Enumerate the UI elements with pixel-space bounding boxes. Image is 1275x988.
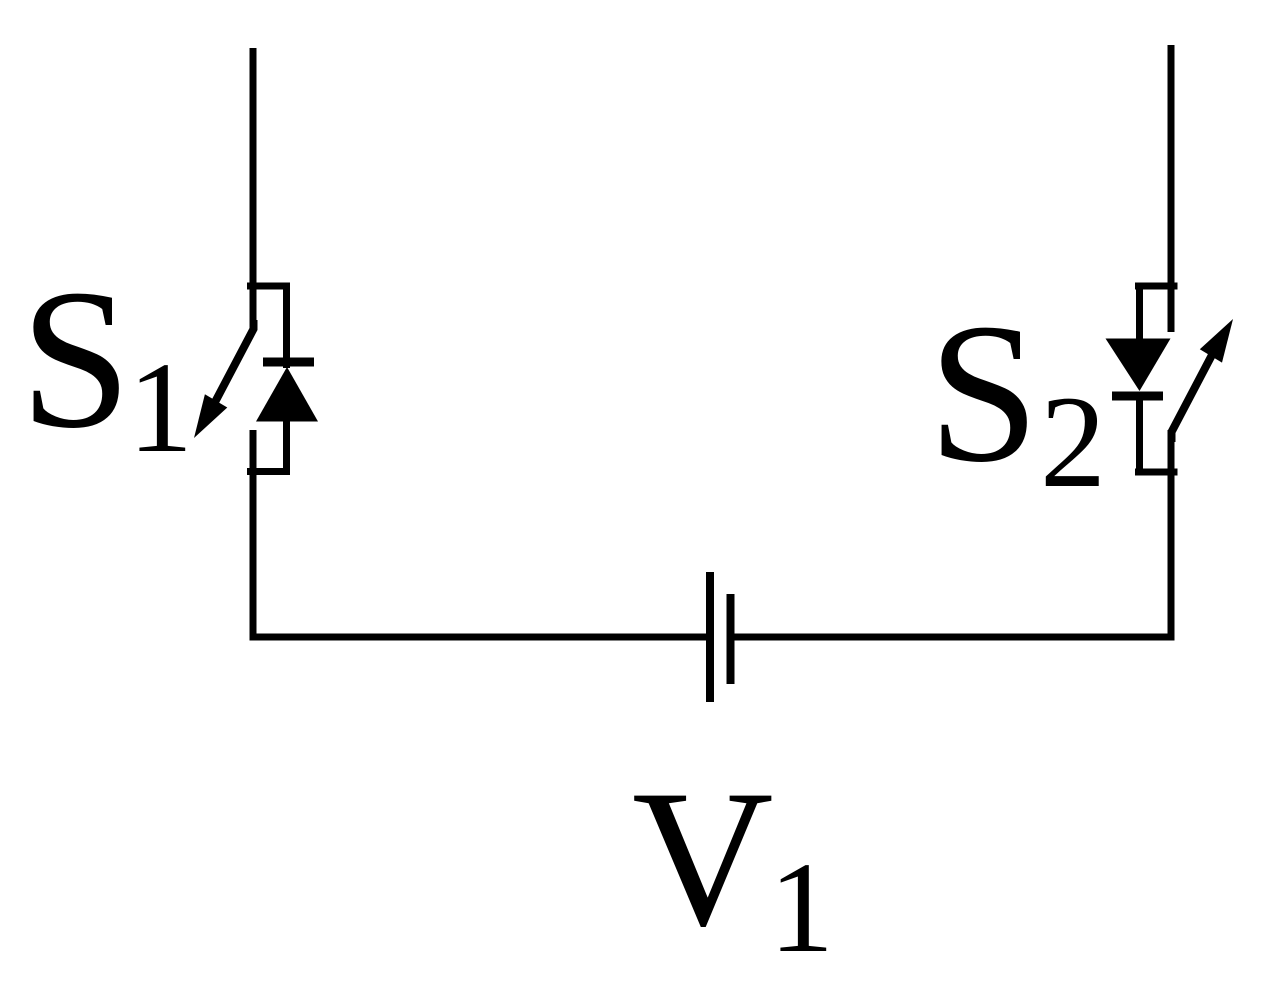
svg-text:S: S xyxy=(928,283,1039,504)
wire: S1 diode branch upper segment xyxy=(283,283,290,368)
wire: left top vertical from supply rail down to S1 top junction xyxy=(250,48,257,330)
anti-parallel diode of S1: cathode bar xyxy=(263,358,314,367)
battery V1: left (long) plate xyxy=(706,572,714,702)
wire: S2 diode branch lower segment xyxy=(1136,398,1143,475)
svg-text:1: 1 xyxy=(128,336,193,480)
wire: S1 bottom terminal extension xyxy=(250,430,257,475)
wire: S1 bottom stub from diode branch xyxy=(247,468,290,475)
anti-parallel diode of S2: triangle (pointing down) xyxy=(1106,339,1171,392)
wire: S2 diode branch upper segment xyxy=(1136,283,1143,340)
switch S2 blade (ideal switch arm with arrowhead) xyxy=(1172,319,1234,442)
svg-text:2: 2 xyxy=(1040,368,1106,515)
wire: left bottom vertical and bottom-left horizontal run to battery xyxy=(253,468,706,637)
wire: S2 bottom stub to diode branch xyxy=(1135,469,1178,476)
wire: bottom-right horizontal run and right vertical up to S2 bottom junction xyxy=(734,430,1171,637)
anti-parallel diode of S2: cathode bar xyxy=(1112,392,1163,401)
battery V1: right (short) plate xyxy=(727,594,735,684)
svg-text:V: V xyxy=(632,750,774,967)
wire: right top vertical from supply rail down through S2 top junction (fixed contact) xyxy=(1168,45,1175,332)
wire: S2 top stub from diode branch xyxy=(1135,283,1178,290)
svg-text:S: S xyxy=(20,249,131,470)
switch S1 blade (ideal switch arm with arrowhead) xyxy=(194,320,254,438)
wire: S1 top stub to diode branch xyxy=(247,283,290,290)
wire: S1 diode branch lower segment xyxy=(283,420,290,475)
anti-parallel diode of S1: triangle (pointing up) xyxy=(256,367,318,422)
svg-text:1: 1 xyxy=(769,836,834,980)
